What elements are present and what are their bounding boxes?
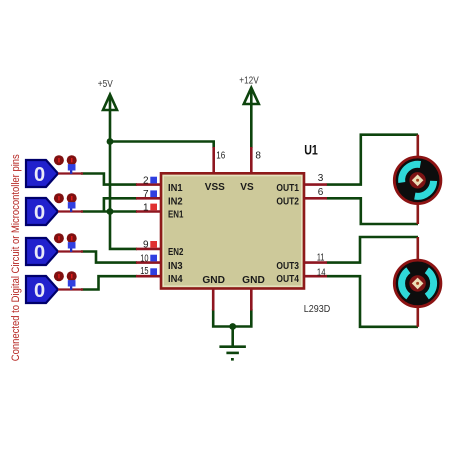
svg-text:3: 3 — [318, 173, 324, 184]
svg-text:IN1: IN1 — [168, 183, 183, 194]
node +5V junction — [107, 138, 114, 145]
svg-text:GND: GND — [202, 275, 225, 286]
svg-text:0: 0 — [34, 242, 45, 264]
pin number labels — [140, 150, 326, 278]
motor M1 pins — [416, 135, 419, 224]
logic state probe P2 — [26, 193, 83, 225]
svg-text:0: 0 — [34, 202, 45, 224]
svg-text:10: 10 — [140, 253, 149, 264]
wire +5V vertical rail — [110, 96, 137, 249]
pin stubs top (VSS pin16, VS pin8) — [214, 147, 252, 173]
motor M1 rotor arcs — [402, 164, 421, 182]
wire probe1 to IN1 — [81, 174, 137, 185]
svg-text:+12V: +12V — [239, 75, 259, 86]
wire GND pins join — [213, 309, 251, 327]
svg-text:OUT4: OUT4 — [276, 274, 299, 285]
wire probe4 to IN4 — [81, 276, 137, 289]
wire OUT3 to motor2 top — [327, 237, 419, 263]
svg-text:L293D: L293D — [304, 303, 331, 315]
svg-text:16: 16 — [216, 150, 225, 161]
motor M1 commutator — [409, 172, 425, 188]
wire OUT4 to motor2 bottom — [327, 276, 419, 327]
logic state probe P4 — [26, 271, 83, 303]
svg-text:1: 1 — [143, 202, 149, 213]
svg-text:VS: VS — [240, 182, 254, 193]
pin state squares — [150, 177, 157, 275]
pin stubs right (OUT1..OUT4) — [304, 185, 327, 277]
node EN1 junction — [107, 208, 114, 215]
svg-text:EN2: EN2 — [168, 247, 183, 258]
motor M2 pins — [416, 237, 419, 327]
logic state probe P1 — [26, 155, 83, 187]
IC U1 L293D body — [161, 173, 304, 288]
svg-text:6: 6 — [318, 187, 324, 198]
svg-text:15: 15 — [140, 266, 149, 277]
svg-text:Connected to Digital Circuit o: Connected to Digital Circuit or Microcon… — [10, 154, 22, 361]
svg-text:14: 14 — [317, 268, 326, 279]
wire to ground symbol — [231, 327, 234, 347]
wire probe3 to IN3 — [81, 252, 137, 263]
node GND junction — [229, 323, 236, 330]
svg-text:+5V: +5V — [98, 79, 113, 90]
power +5V arrow symbol — [103, 95, 117, 111]
svg-text:0: 0 — [34, 164, 45, 186]
svg-text:IN4: IN4 — [168, 274, 183, 285]
wire probe2 to EN1 — [81, 210, 137, 213]
power +12V arrow symbol — [244, 88, 259, 104]
motor M2 rotor arcs — [402, 270, 409, 296]
svg-text:11: 11 — [317, 253, 325, 264]
wire +12V to VS pin — [250, 89, 253, 148]
motor M1 body — [394, 157, 441, 204]
wire OUT2 to motor1 bottom — [327, 198, 419, 224]
wire +5V to VSS pin — [110, 142, 214, 149]
logic state probe P3 — [26, 233, 83, 265]
svg-text:2: 2 — [143, 175, 149, 186]
svg-text:7: 7 — [143, 189, 149, 200]
svg-text:0: 0 — [34, 280, 45, 302]
svg-text:OUT3: OUT3 — [276, 261, 299, 272]
wire IN2 jog — [104, 198, 137, 211]
svg-text:OUT2: OUT2 — [276, 197, 299, 208]
svg-text:IN2: IN2 — [168, 197, 183, 208]
svg-text:OUT1: OUT1 — [276, 183, 299, 194]
motor M2 body — [394, 260, 441, 307]
wire OUT1 to motor1 top — [327, 135, 419, 185]
ground — [219, 347, 246, 360]
svg-text:GND: GND — [242, 275, 265, 286]
svg-text:EN1: EN1 — [168, 210, 184, 221]
svg-text:8: 8 — [255, 150, 261, 161]
pin stubs left (IN1,IN2,EN1,EN2,IN3,IN4) — [136, 185, 161, 277]
svg-text:VSS: VSS — [205, 182, 226, 193]
IC pin name labels — [168, 182, 300, 286]
motor M2 commutator — [409, 275, 425, 291]
svg-text:9: 9 — [143, 240, 149, 251]
svg-text:U1: U1 — [304, 143, 318, 158]
pin stubs bottom (GND pins) — [213, 289, 251, 311]
svg-text:IN3: IN3 — [168, 261, 183, 272]
